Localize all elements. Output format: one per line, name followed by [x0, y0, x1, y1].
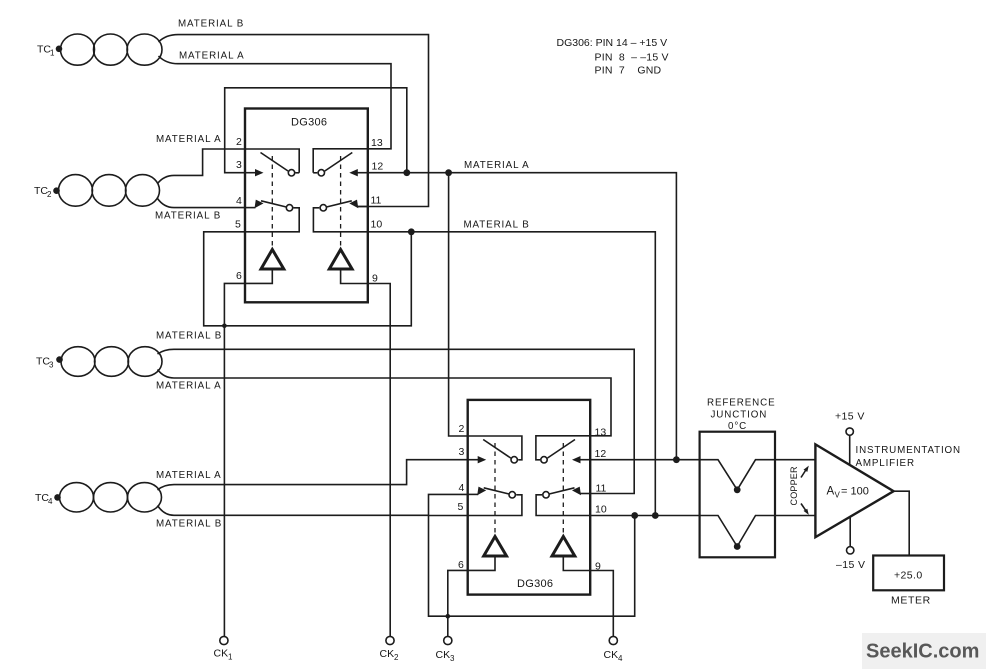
- U1 S1D blade: [327, 201, 352, 207]
- U1 S1C contact circle: [318, 170, 324, 176]
- COPPER lower pointer arrow: [801, 504, 807, 512]
- -15 V supply terminal circle: [847, 547, 854, 554]
- U2 S2A input arrow: [478, 456, 487, 463]
- svg-text:DG306: DG306: [517, 578, 553, 590]
- svg-text:MATERIAL B: MATERIAL B: [155, 211, 221, 222]
- U2 driver triangle left: [484, 537, 507, 557]
- U2 switch S2D pin11 stub: [580, 493, 590, 495]
- COPPER upper pointer arrow: [801, 469, 807, 478]
- CK1 terminal circle: [220, 636, 228, 644]
- svg-text:4: 4: [459, 482, 465, 494]
- U2 S2A bracket from pin 2: [468, 436, 522, 460]
- U2 S2D input arrow: [572, 487, 581, 496]
- svg-text:5: 5: [235, 219, 241, 231]
- svg-text:SeekIC.com: SeekIC.com: [866, 641, 979, 663]
- wire copper lower to amplifier: [775, 515, 815, 517]
- U1 S1B blade: [261, 201, 286, 207]
- TC3 loop 1: [61, 347, 95, 377]
- svg-text:METER: METER: [891, 595, 931, 607]
- wire block2 pin 2 feed from node MA: [449, 173, 468, 436]
- svg-text:3: 3: [450, 654, 455, 663]
- U1 S1C input arrow: [349, 169, 358, 176]
- op-amp U3 instrumentation amplifier triangle: [815, 444, 893, 537]
- thermocouple TC1: [37, 34, 162, 65]
- svg-text:REFERENCE: REFERENCE: [707, 398, 776, 409]
- U1 S1C blade: [325, 153, 353, 172]
- U2 switch S2B pin4 input stub: [468, 493, 479, 495]
- thermocouple TC2: [34, 175, 160, 207]
- svg-text:A: A: [827, 486, 835, 498]
- wire copper upper to amplifier: [775, 459, 815, 461]
- reference junction upper thermocouple V: [700, 460, 775, 490]
- node MB2 junction dot bus: [652, 512, 659, 519]
- U2 S2D blade: [550, 488, 575, 494]
- U1 switch S1C pin12 stub: [356, 172, 368, 174]
- U1 S1B contact circle: [286, 205, 292, 211]
- svg-text:10: 10: [595, 504, 607, 516]
- junction dot CK3 crossing pin5 loop: [446, 614, 451, 619]
- TC4 loop 2: [94, 483, 128, 512]
- CK3 terminal circle: [444, 636, 452, 644]
- wire TC1 MATERIAL A to U1 pin 13 and bracket: [159, 56, 392, 173]
- wire MATERIAL B bus from U1 pin 10: [368, 232, 655, 516]
- U1 S1A bracket link: [296, 172, 300, 174]
- U2 S2B contact circle: [509, 492, 515, 498]
- thermocouple TC4: [35, 483, 162, 512]
- U1 driver triangle left: [261, 250, 284, 270]
- svg-text:13: 13: [371, 137, 383, 149]
- U2 switch S2A pin3 input stub: [468, 459, 480, 461]
- svg-text:13: 13: [595, 427, 607, 439]
- svg-text:MATERIAL B: MATERIAL B: [156, 331, 222, 342]
- wire TC2 MATERIAL B to U1 pin 4: [158, 199, 246, 208]
- node MA2 junction dot: [673, 456, 680, 463]
- U2 S2C bracket from pin 13: [536, 436, 590, 460]
- svg-text:V: V: [835, 491, 841, 500]
- svg-text:MATERIAL A: MATERIAL A: [464, 160, 530, 171]
- U1 S1A blade: [261, 153, 289, 172]
- wire U1 pin 6 to CK1: [224, 269, 272, 637]
- svg-text:JUNCTION: JUNCTION: [711, 410, 768, 421]
- svg-text:6: 6: [236, 270, 242, 282]
- svg-text:5: 5: [458, 501, 464, 513]
- svg-text:INSTRUMENTATION: INSTRUMENTATION: [856, 445, 961, 456]
- U2 switch S2C pin12 stub: [579, 459, 591, 461]
- wire U1 pin 3 loop to node MA: [225, 88, 407, 173]
- wire U2 pin 6 to CK3: [448, 556, 495, 637]
- U1 switch S1A pin3 input stub: [245, 172, 257, 174]
- svg-text:1: 1: [50, 49, 55, 58]
- wire amplifier output to meter: [894, 491, 910, 555]
- node MA junction dot block2 pin2 feed: [445, 169, 452, 176]
- TC3 loop 3: [128, 347, 162, 377]
- U2 S2D contact circle: [543, 492, 549, 498]
- svg-text:11: 11: [371, 195, 382, 207]
- CK4 terminal circle: [609, 636, 617, 644]
- wire MATERIAL A bus from U1 pin 12: [368, 173, 676, 460]
- TC3 junction dot: [56, 356, 63, 363]
- svg-text:DG306: PIN 14 – +15 V: DG306: PIN 14 – +15 V: [557, 37, 668, 49]
- svg-text:= 100: = 100: [841, 486, 869, 498]
- svg-text:12: 12: [372, 161, 384, 173]
- svg-text:3: 3: [236, 159, 242, 171]
- U1 S1D input arrow: [349, 200, 358, 209]
- U2 S2B bracket to pin 5 and loop to pin 10 net: [429, 495, 635, 616]
- U1 driver control dashed line right: [340, 156, 342, 248]
- U1 switch S1D pin11 stub: [357, 206, 368, 208]
- U2 S2C blade: [548, 440, 576, 459]
- +15 V supply terminal circle: [846, 428, 853, 435]
- U1 switch S1B pin4 input stub: [245, 207, 256, 209]
- reference junction box: [700, 432, 775, 558]
- svg-text:4: 4: [618, 654, 623, 663]
- TC4 junction dot: [54, 494, 61, 501]
- wire TC4 MATERIAL A to U2 pin 3: [158, 460, 468, 490]
- svg-text:MATERIAL A: MATERIAL A: [156, 381, 222, 392]
- U2 S2D bracket to pin 10: [536, 495, 590, 516]
- svg-text:4: 4: [48, 497, 53, 506]
- node MB2 junction dot loop riser: [631, 512, 638, 519]
- wire TC4 MATERIAL B to U2 pin 4: [158, 494, 468, 515]
- node MB junction dot pin5 loop: [408, 228, 415, 235]
- TC2 loop 3: [126, 175, 160, 207]
- TC2 loop 1: [59, 175, 93, 207]
- TC2 junction dot: [53, 187, 60, 194]
- svg-text:+25.0: +25.0: [894, 570, 923, 582]
- svg-text:2: 2: [394, 653, 399, 662]
- wire U2 pin 9 to CK4: [563, 556, 613, 637]
- U2 S2A contact circle: [511, 457, 517, 463]
- svg-text:CK: CK: [436, 649, 451, 661]
- svg-text:MATERIAL A: MATERIAL A: [156, 470, 222, 481]
- svg-text:COPPER: COPPER: [789, 466, 799, 506]
- svg-text:MATERIAL B: MATERIAL B: [178, 19, 244, 30]
- U1 S1B bracket to pin 5: [204, 208, 412, 326]
- TC1 loop 1: [61, 34, 95, 65]
- U2 S2B input arrow: [477, 487, 486, 496]
- U1 S1D contact circle: [320, 205, 326, 211]
- svg-text:+15 V: +15 V: [835, 411, 865, 423]
- wire U2 pin 10 to reference junction: [590, 515, 699, 517]
- TC1 loop 3: [127, 34, 162, 65]
- U2 driver triangle right: [552, 537, 575, 557]
- analog switch U2 DG306 box: [468, 400, 591, 595]
- U2 S2A blade: [483, 440, 511, 459]
- meter M1 box: [873, 556, 944, 591]
- wire U2 pin 12 to reference junction: [590, 459, 699, 461]
- svg-text:3: 3: [459, 446, 465, 458]
- U2 driver control dashed line right: [562, 443, 564, 535]
- wire TC2 MATERIAL A to U1 pin 2 and bracket: [158, 149, 300, 184]
- svg-text:6: 6: [458, 559, 464, 571]
- svg-text:2: 2: [236, 136, 242, 148]
- TC2 loop 2: [92, 175, 126, 207]
- svg-text:MATERIAL A: MATERIAL A: [179, 51, 245, 62]
- wire TC3 MATERIAL B to U2 pin 11: [158, 349, 635, 493]
- wire TC1 MATERIAL B to U1 pin 11: [159, 35, 429, 207]
- svg-text:1: 1: [228, 653, 233, 662]
- svg-text:MATERIAL A: MATERIAL A: [156, 134, 222, 145]
- U1 S1C bracket link: [313, 172, 317, 174]
- U1 driver triangle right: [329, 250, 352, 270]
- U2 S2C input arrow: [572, 456, 581, 463]
- +15 V stem wire: [849, 435, 851, 465]
- reference junction lower thermocouple V: [700, 516, 775, 547]
- U1 S1B input arrow: [255, 200, 264, 209]
- svg-text:MATERIAL B: MATERIAL B: [464, 220, 530, 231]
- svg-text:CK: CK: [214, 648, 229, 660]
- node MA junction dot pin3 riser: [403, 169, 410, 176]
- svg-text:CK: CK: [604, 649, 619, 661]
- svg-text:2: 2: [459, 423, 465, 435]
- U2 S2B blade: [484, 488, 509, 494]
- upper V junction dot: [734, 486, 741, 493]
- svg-text:2: 2: [47, 190, 52, 199]
- TC3 loop 2: [95, 347, 129, 377]
- svg-text:CK: CK: [380, 648, 395, 660]
- svg-text:11: 11: [596, 483, 607, 495]
- U1 S1A contact circle: [288, 170, 294, 176]
- TC1 loop 2: [94, 34, 128, 65]
- svg-text:3: 3: [49, 361, 54, 370]
- TC4 loop 3: [128, 483, 162, 512]
- svg-text:12: 12: [595, 448, 607, 460]
- svg-text:10: 10: [371, 219, 383, 231]
- wire U1 pin 9 to CK2: [341, 269, 391, 637]
- svg-text:0°C: 0°C: [728, 421, 747, 432]
- svg-text:PIN 7 GND: PIN 7 GND: [595, 65, 662, 77]
- analog switch U1 DG306 box: [245, 109, 368, 303]
- svg-text:PIN 8 – –15 V: PIN 8 – –15 V: [595, 52, 669, 64]
- TC1 junction dot: [56, 46, 63, 53]
- CK2 terminal circle: [386, 636, 394, 644]
- svg-text:MATERIAL B: MATERIAL B: [156, 519, 222, 530]
- TC4 loop 1: [60, 483, 94, 512]
- U1 S1D bracket to pin 10: [313, 208, 368, 232]
- junction dot CK1 crossing pin5 loop: [222, 324, 227, 329]
- svg-text:AMPLIFIER: AMPLIFIER: [856, 458, 915, 469]
- lower V junction dot: [734, 543, 741, 550]
- thermocouple TC3: [36, 347, 162, 377]
- svg-text:4: 4: [236, 195, 242, 207]
- U2 S2C contact circle: [541, 457, 547, 463]
- U2 driver control dashed line left: [494, 443, 496, 535]
- svg-text:DG306: DG306: [291, 117, 327, 129]
- U1 S1A input arrow: [255, 169, 264, 176]
- svg-text:–15 V: –15 V: [836, 559, 865, 571]
- -15 V stem wire: [849, 517, 851, 547]
- U1 driver control dashed line left: [271, 156, 273, 248]
- watermark background tint: [862, 633, 986, 669]
- wire TC3 MATERIAL A to U2 pin 13: [158, 370, 612, 436]
